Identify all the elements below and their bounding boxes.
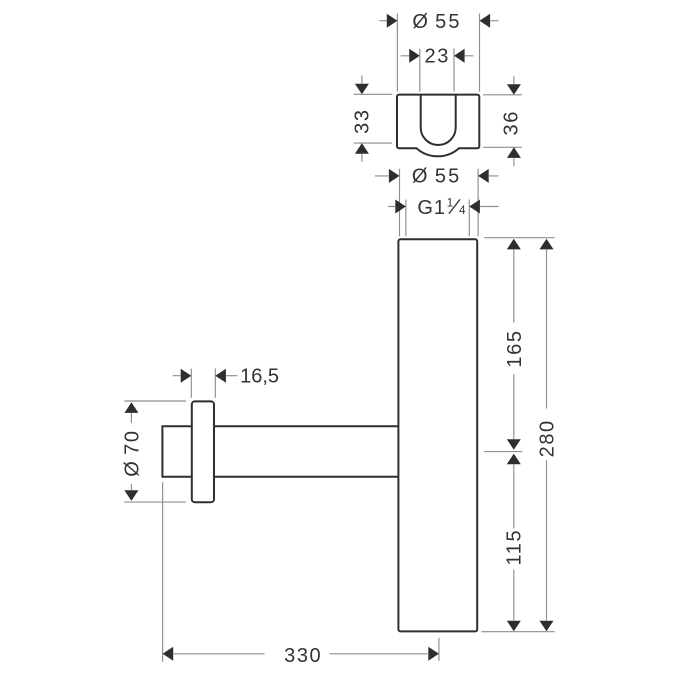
svg-text:330: 330 [284, 645, 322, 667]
svg-text:36: 36 [500, 110, 522, 135]
dim G1 1/4: arrows [395, 200, 480, 214]
svg-text:23: 23 [424, 45, 449, 67]
dim 280: arrows [540, 239, 554, 632]
siphon body [398, 239, 477, 631]
dim Ø70: extension lines [124, 401, 186, 502]
dim 165: arrows [507, 239, 521, 450]
svg-text:165: 165 [504, 329, 526, 367]
dim 36: extension lines [483, 95, 522, 148]
dim 33: arrows [355, 84, 369, 154]
dim 36: arrows [507, 84, 521, 158]
dim Ø55 top: dimension line tails [379, 20, 498, 22]
dim Ø55 lower: extension lines [400, 169, 479, 237]
dim 115: arrows [507, 454, 521, 632]
svg-text:Ø: Ø [412, 11, 428, 33]
right dims: bottom extension line [482, 631, 555, 633]
dim 33: dimension line tails [361, 76, 363, 162]
dim Ø55 lower: arrows [389, 169, 489, 183]
dim Ø55 lower: dimension line tails [375, 175, 498, 177]
dim 33: extension lines [354, 94, 393, 143]
dim G1 1/4: extension lines [406, 200, 469, 237]
holder cup inner U bore [421, 95, 456, 145]
dim 330: dimension line segments [174, 653, 428, 655]
svg-text:55: 55 [435, 11, 462, 33]
svg-text:Ø: Ø [122, 461, 144, 477]
dim 16,5: arrows [181, 369, 226, 383]
dim 16,5: extension lines [191, 369, 215, 398]
right dims: top extension line [484, 237, 554, 239]
dim 330: extension lines [163, 482, 439, 662]
svg-text:115: 115 [503, 529, 525, 566]
svg-text:Ø: Ø [412, 166, 428, 188]
svg-text:G: G [417, 197, 433, 219]
right dims: centerline mark at pipe axis [484, 451, 522, 453]
holder cup outline (top section) [397, 95, 479, 157]
svg-text:70: 70 [122, 429, 144, 454]
dim 16,5: dimension line tails [173, 375, 238, 377]
svg-text:33: 33 [351, 108, 373, 133]
svg-text:16,5: 16,5 [240, 366, 279, 388]
svg-text:55: 55 [435, 166, 462, 188]
dim Ø55 top: extension lines [397, 14, 479, 92]
dim 165: dimension line segments [513, 250, 515, 439]
dim 23: dimension line tails [401, 55, 474, 57]
svg-text:1: 1 [447, 197, 453, 209]
dim 23: extension lines [420, 49, 454, 92]
wall pipe [162, 426, 398, 477]
dim Ø70: dimension line segments [130, 413, 132, 490]
dim Ø55 top: arrows [387, 14, 490, 28]
dim 23: arrows [409, 49, 464, 63]
wall flange [192, 401, 214, 502]
dim G1 1/4: dimension line tails [388, 206, 499, 208]
svg-text:4: 4 [459, 205, 466, 217]
dim 115: dimension line segments [513, 465, 515, 621]
dim 280: dimension line segments [546, 250, 548, 621]
svg-text:280: 280 [537, 419, 559, 457]
dim Ø70: arrows [124, 402, 138, 501]
svg-text:1: 1 [434, 197, 445, 219]
dim 330: arrows [163, 647, 439, 661]
dim 36: dimension line tails [513, 76, 515, 166]
